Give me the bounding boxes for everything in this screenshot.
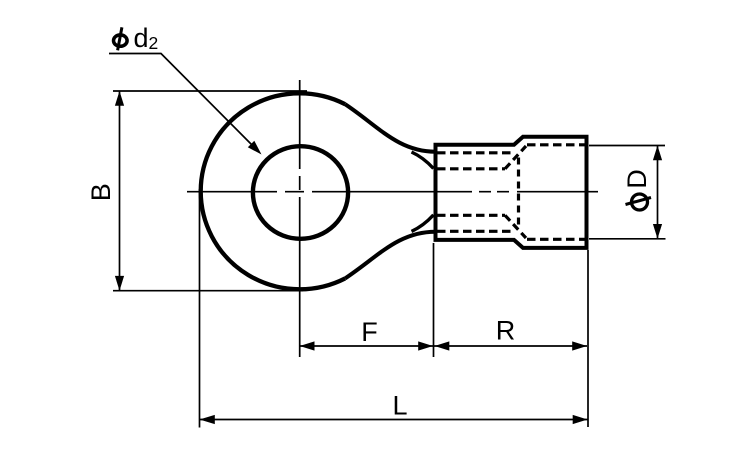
dimension line F and R	[300, 345, 587, 347]
svg-text:F: F	[361, 317, 378, 347]
arrowhead R left	[435, 341, 450, 350]
arrowhead B bottom	[115, 276, 124, 291]
arrowhead R right	[572, 341, 587, 350]
hidden line: barrel inner wall upper	[437, 151, 512, 154]
sleeve mouth flare upper	[412, 152, 434, 169]
sleeve mouth flare lower	[412, 215, 434, 232]
dimension line L	[200, 419, 588, 421]
leader line for phi d2	[109, 54, 258, 152]
svg-text:B: B	[86, 183, 116, 201]
arrowhead F right	[418, 341, 433, 350]
extension line bottom of ring (B)	[113, 290, 303, 292]
hidden line: flare transition lower	[505, 215, 526, 238]
arrowhead L left	[200, 415, 215, 424]
barrel outline (wire barrel + insulation sleeve)	[436, 137, 587, 248]
hidden line: barrel end face vertical	[517, 158, 520, 228]
hidden line: insulation inner wall upper	[527, 143, 585, 146]
hidden line: insulation inner wall lower	[527, 238, 585, 241]
neck curve lower (ring to barrel)	[345, 232, 435, 279]
svg-text:R: R	[496, 316, 516, 346]
neck curve upper (ring to barrel)	[345, 104, 435, 152]
svg-text:D: D	[622, 169, 652, 189]
extension line below barrel left edge	[433, 243, 435, 357]
hidden line: wire hole upper	[437, 167, 505, 170]
ring outer circle (open toward barrel)	[201, 93, 345, 289]
arrowhead B top	[115, 91, 124, 106]
leader arrowhead phi d2	[248, 141, 262, 155]
label phi d2: phi symbol	[114, 27, 128, 50]
arrowhead phiD bottom	[653, 224, 662, 239]
extension line right of barrel (R/L right)	[587, 250, 589, 427]
arrowhead F left	[300, 341, 315, 350]
dimension line phiD	[657, 146, 659, 239]
extension line phiD bottom	[589, 238, 666, 240]
extension line top of ring (B)	[113, 90, 307, 92]
ring hole circle	[253, 146, 348, 239]
extension line left of ring (L left)	[199, 189, 201, 428]
hidden line: barrel inner wall lower	[437, 230, 512, 233]
arrowhead phiD top	[653, 146, 662, 161]
label phiD: phi symbol	[626, 194, 652, 210]
horizontal centerline of terminal	[187, 191, 598, 193]
hidden line: wire hole lower	[437, 214, 505, 217]
arrowhead L right	[573, 415, 588, 424]
svg-text:L: L	[392, 391, 407, 421]
extension line phiD top	[589, 145, 665, 147]
hidden line: flare transition upper	[505, 146, 526, 169]
vertical centerline of ring	[299, 80, 301, 357]
dimension line B	[119, 91, 121, 291]
